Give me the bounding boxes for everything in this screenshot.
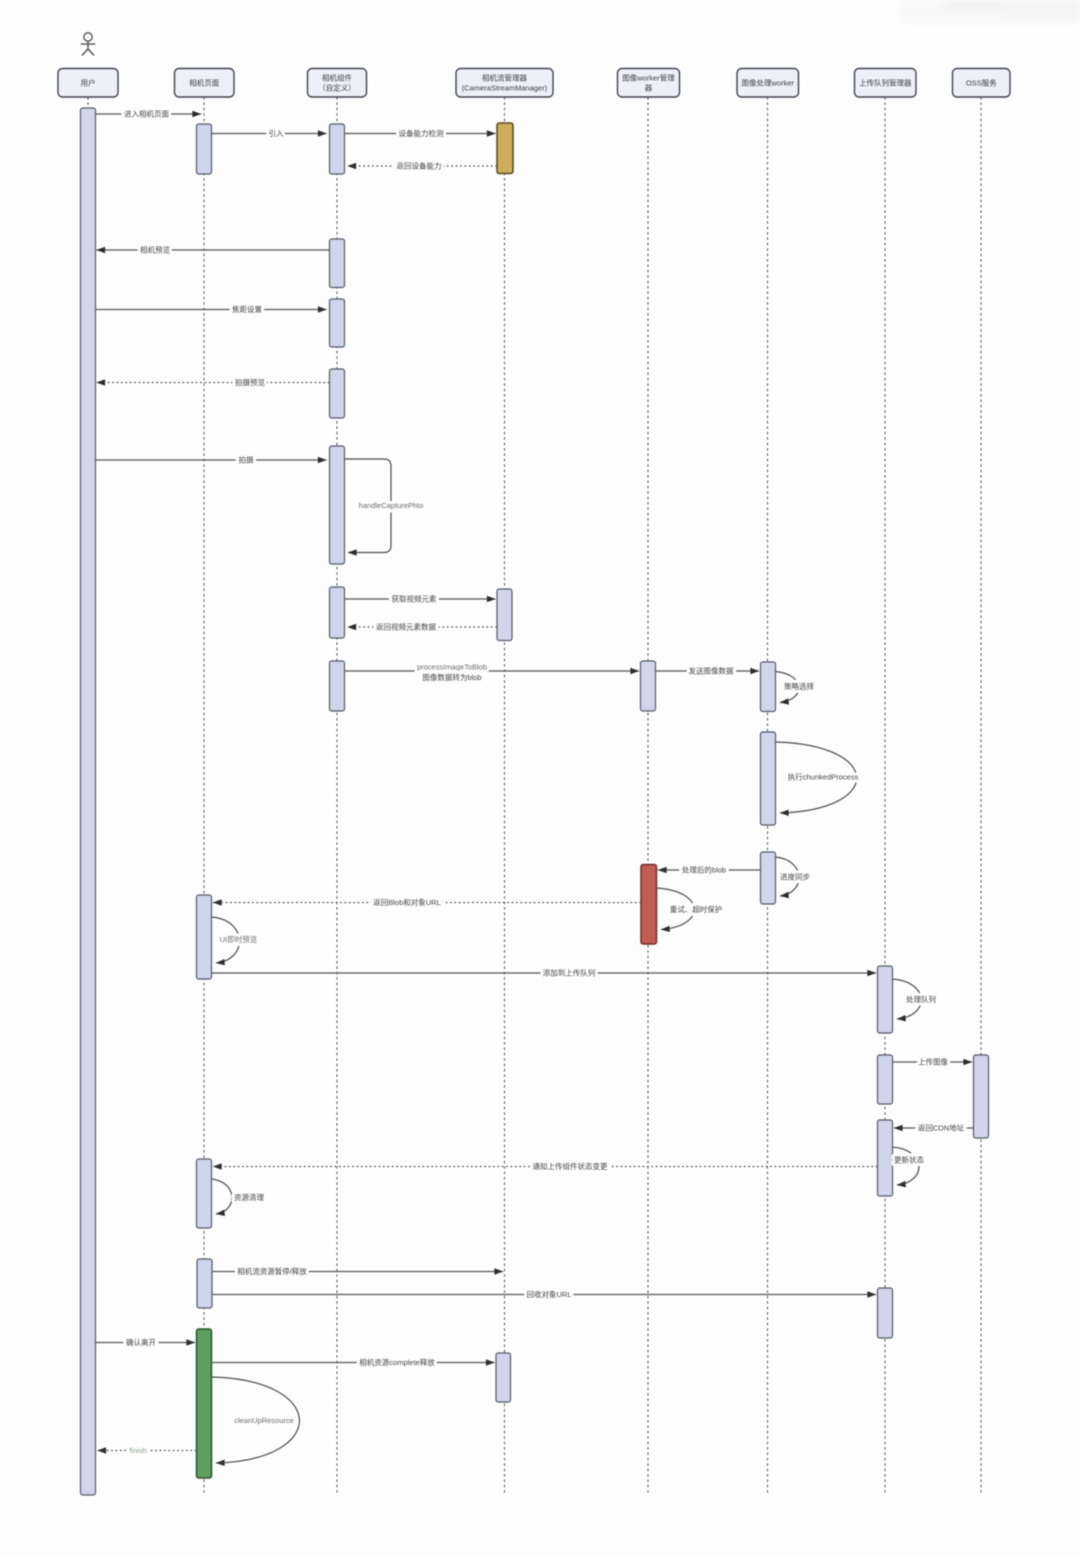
- svg-text:相机流资源暂停/释放: 相机流资源暂停/释放: [237, 1266, 307, 1276]
- self-message 重试、超时保护: [657, 888, 723, 930]
- faint toolbar smudge top-right: [900, 0, 1080, 24]
- message 获取视频元素: [345, 594, 496, 604]
- svg-text:确认离开: 确认离开: [126, 1337, 156, 1347]
- message 引入: [212, 129, 327, 138]
- activation 用户 main: [81, 108, 96, 1495]
- svg-text:相机资源complete释放: 相机资源complete释放: [359, 1357, 435, 1367]
- svg-text:图像worker管理: 图像worker管理: [622, 73, 675, 83]
- message 设备能力检测: [345, 128, 496, 138]
- svg-text:回收对象URL: 回收对象URL: [526, 1289, 571, 1299]
- activation 图像worker管理器 #2 error (红色): [641, 865, 657, 945]
- svg-text:processImageToBlob: processImageToBlob: [417, 663, 487, 672]
- lifeline OSS服务: [980, 97, 982, 1495]
- svg-text:相机流管理器: 相机流管理器: [482, 73, 527, 83]
- message 相机资源complete释放: [212, 1357, 495, 1367]
- svg-text:（自定义）: （自定义）: [318, 83, 356, 93]
- activation 相机页面 #2 (UI即时预览): [197, 895, 212, 979]
- activation 相机页面 #3 (资源清理): [197, 1159, 212, 1228]
- svg-text:返回Blob和对象URL: 返回Blob和对象URL: [373, 897, 441, 907]
- lifeline 相机组件: [336, 97, 338, 1495]
- participant 用户: [58, 69, 118, 98]
- svg-text:处理队列: 处理队列: [906, 994, 936, 1004]
- message label processImageToBlob / 图像数据转为blob: [417, 663, 487, 683]
- svg-text:cleanUpResource: cleanUpResource: [234, 1416, 294, 1425]
- lifeline 用户: [87, 97, 89, 1495]
- activation 上传队列管理器 #1 (处理队列): [878, 966, 893, 1033]
- activation 相机组件 #3 (焦距设置): [330, 299, 345, 347]
- message 处理后的blob: [658, 865, 761, 875]
- activation OSS服务 #1: [974, 1055, 989, 1138]
- participant 上传队列管理器: [855, 69, 917, 98]
- activation 上传队列管理器 #2 (上传图像): [878, 1055, 893, 1104]
- activation 图像处理worker #1 (策略选择): [761, 662, 776, 712]
- svg-text:添加到上传队列: 添加到上传队列: [543, 968, 596, 978]
- lifeline 图像worker管理器: [647, 97, 649, 1495]
- activation 相机组件 #1: [330, 124, 345, 174]
- svg-text:器: 器: [645, 84, 653, 93]
- message 返回设备能力: [348, 161, 498, 171]
- actor stick figure 用户: [81, 33, 95, 56]
- message 发送图像数据: [656, 666, 760, 676]
- lifeline 图像处理worker: [767, 97, 769, 1495]
- svg-text:OSS服务: OSS服务: [966, 77, 997, 87]
- svg-text:处理后的blob: 处理后的blob: [682, 865, 726, 875]
- participant 相机组件(自定义): [308, 69, 367, 98]
- message 通知上传组件状态变更: [213, 1161, 878, 1171]
- self-message 执行chunkedProcess: [776, 742, 859, 813]
- activation 相机组件 #4 (拍摄预览): [330, 369, 345, 418]
- message 焦距设置: [96, 304, 327, 314]
- self-message 策略选择: [776, 672, 815, 703]
- activation 相机流管理器 #2: [497, 589, 512, 641]
- svg-text:资源清理: 资源清理: [234, 1192, 264, 1202]
- svg-text:重试、超时保护: 重试、超时保护: [670, 904, 723, 914]
- svg-text:finish: finish: [129, 1446, 147, 1455]
- svg-text:相机页面: 相机页面: [189, 77, 219, 87]
- activation 相机页面 #4 (资源暂停释放): [197, 1259, 212, 1308]
- svg-text:用户: 用户: [81, 77, 96, 87]
- message processImageToBlob 图像数据转为blob: [345, 670, 640, 672]
- participant 相机页面: [175, 69, 235, 98]
- message 返回Blob和对象URL: [213, 897, 641, 907]
- svg-text:焦距设置: 焦距设置: [232, 304, 262, 314]
- activation 图像处理worker #3 (进度同步): [761, 852, 776, 904]
- message 返回视频元素数据: [348, 622, 498, 632]
- message 相机预览: [97, 245, 330, 255]
- message 拍摄: [96, 455, 327, 465]
- message 确认离开: [96, 1337, 196, 1347]
- activation 相机页面 #5 cleanup (绿色): [197, 1329, 212, 1478]
- self-message 更新状态: [893, 1147, 925, 1185]
- svg-text:返回设备能力: 返回设备能力: [397, 161, 442, 171]
- message 回收对象URL: [212, 1289, 876, 1299]
- message 拍摄预览: [97, 377, 330, 387]
- svg-text:相机预览: 相机预览: [140, 245, 170, 255]
- activation 相机组件 #7 (processImageToBlob): [330, 661, 345, 711]
- svg-text:获取视频元素: 获取视频元素: [392, 594, 437, 604]
- participant 相机流管理器(CameraStreamManager): [456, 69, 553, 98]
- svg-text:更新状态: 更新状态: [894, 1155, 924, 1165]
- self-message 资源清理: [212, 1179, 265, 1214]
- activation 相机页面 #1: [197, 124, 212, 174]
- message 返回CDN地址: [894, 1123, 974, 1133]
- svg-text:设备能力检测: 设备能力检测: [399, 128, 444, 138]
- activation 上传队列管理器 #4 (回收对象URL): [878, 1288, 893, 1338]
- svg-text:拍摄: 拍摄: [239, 455, 254, 465]
- svg-text:相机组件: 相机组件: [322, 73, 352, 83]
- svg-text:UI即时预览: UI即时预览: [220, 934, 258, 944]
- svg-text:图像处理worker: 图像处理worker: [741, 77, 794, 87]
- self-message cleanUpResource: [212, 1377, 300, 1463]
- message 相机流资源暂停/释放: [212, 1266, 503, 1276]
- activation 图像处理worker #2 (chunkedProcess): [761, 732, 776, 825]
- activation 相机流管理器 #1 (设备能力检测): [497, 123, 513, 174]
- self-message 处理队列: [893, 979, 937, 1019]
- activation 图像worker管理器 #1: [641, 661, 656, 711]
- svg-text:发送图像数据: 发送图像数据: [689, 666, 734, 676]
- svg-text:执行chunkedProcess: 执行chunkedProcess: [788, 772, 859, 782]
- self-message handleCapturePhto (拍摄自调用): [345, 459, 424, 553]
- activation 上传队列管理器 #3 (更新状态): [878, 1120, 893, 1196]
- svg-text:(CameraStreamManager): (CameraStreamManager): [462, 84, 548, 93]
- self-message UI即时预览: [212, 917, 258, 963]
- svg-text:策略选择: 策略选择: [784, 681, 814, 691]
- svg-text:拍摄预览: 拍摄预览: [235, 377, 265, 387]
- participant 图像处理worker: [737, 69, 799, 98]
- svg-text:上传队列管理器: 上传队列管理器: [859, 77, 912, 87]
- message 上传图像: [893, 1057, 973, 1067]
- svg-text:返回视频元素数据: 返回视频元素数据: [376, 622, 436, 632]
- lifeline 相机页面: [203, 97, 205, 1495]
- participant OSS服务: [953, 69, 1011, 98]
- self-message 进度同步: [776, 857, 811, 896]
- message 进入相机页面: [96, 109, 202, 119]
- svg-text:进入相机页面: 进入相机页面: [124, 109, 169, 119]
- activation 相机流管理器 #3 (complete释放): [496, 1353, 511, 1402]
- message 添加到上传队列: [212, 968, 877, 978]
- activation 相机组件 #5 (拍摄/handleCapturePhto): [330, 446, 345, 564]
- svg-text:返回CDN地址: 返回CDN地址: [918, 1123, 965, 1133]
- svg-text:引入: 引入: [269, 129, 284, 138]
- svg-text:handleCapturePhto: handleCapturePhto: [359, 501, 424, 510]
- activation 相机组件 #6 (获取视频元素): [330, 587, 345, 638]
- svg-text:进度同步: 进度同步: [780, 872, 810, 882]
- svg-text:通知上传组件状态变更: 通知上传组件状态变更: [533, 1161, 608, 1171]
- lifeline 相机流管理器: [504, 97, 506, 1495]
- svg-text:上传图像: 上传图像: [918, 1057, 948, 1067]
- activation 相机组件 #2 (相机预览): [330, 239, 345, 288]
- participant 图像worker管理器: [618, 69, 680, 98]
- svg-text:图像数据转为blob: 图像数据转为blob: [422, 672, 481, 682]
- message finish: [98, 1446, 197, 1455]
- lifeline 上传队列管理器: [884, 97, 886, 1495]
